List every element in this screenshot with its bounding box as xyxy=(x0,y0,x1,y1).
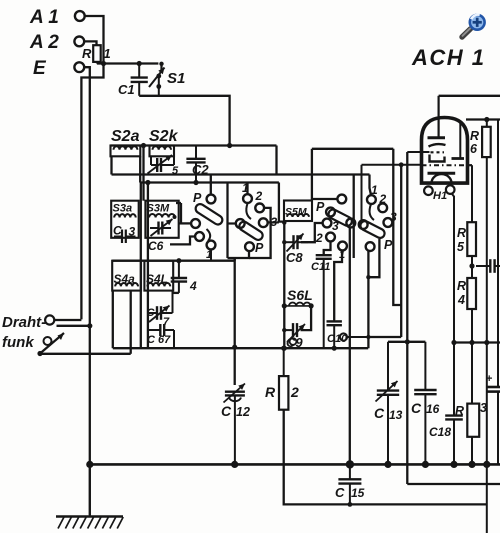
svg-text:6: 6 xyxy=(470,142,478,156)
rotary sw4 contact P xyxy=(366,242,375,251)
wire S4a box left down xyxy=(112,291,114,349)
wire heater pin down xyxy=(452,193,455,415)
rotary sw2 arc xyxy=(246,203,251,219)
svg-text:15: 15 xyxy=(351,486,365,500)
capacitor C17 right xyxy=(476,259,500,273)
capacitor C3 xyxy=(113,224,136,244)
wire B top xyxy=(312,148,393,150)
tube screen lead xyxy=(452,123,465,159)
wire S2a right down xyxy=(139,156,141,182)
label ACH 1 xyxy=(411,45,486,70)
wire S4a coil down xyxy=(130,291,132,354)
wire anode lead xyxy=(438,96,440,138)
svg-text:C: C xyxy=(335,485,345,500)
icon magnifier xyxy=(462,15,485,37)
tube cathode xyxy=(428,172,456,175)
tube pin right xyxy=(446,185,455,194)
svg-text:C9: C9 xyxy=(286,335,303,350)
svg-text:P: P xyxy=(316,200,325,214)
wire tube top right xyxy=(466,118,500,120)
junction S5M bottom xyxy=(282,220,286,224)
wire C4 bottom xyxy=(173,292,179,294)
wire x407 down xyxy=(406,152,408,484)
rotary sw1 rotor xyxy=(194,202,224,226)
resistor R4 xyxy=(467,278,476,404)
wire main ground bus xyxy=(90,463,500,466)
wire sw3-1 down xyxy=(334,250,342,320)
wire R3 leads xyxy=(471,437,473,464)
trimmer C12 xyxy=(221,384,250,465)
terminal E xyxy=(33,58,84,79)
wire cluster2 C12 down xyxy=(234,258,236,385)
trimmer C9 xyxy=(284,323,305,350)
svg-text:R: R xyxy=(470,129,479,143)
label 1 cluster4 xyxy=(371,183,378,197)
svg-text:C: C xyxy=(147,307,156,319)
junction bus right xyxy=(483,461,490,468)
tube envelope xyxy=(422,118,468,184)
junction R2 top xyxy=(281,346,286,351)
wire A2 to R1 xyxy=(84,41,96,45)
wire S6L right down xyxy=(301,306,312,330)
label R3 xyxy=(455,401,487,418)
svg-text:C1: C1 xyxy=(118,82,135,97)
svg-text:2: 2 xyxy=(290,384,299,400)
label 3 cluster2 xyxy=(271,215,278,229)
svg-text:ACH 1: ACH 1 xyxy=(411,45,486,70)
junction bus C13 xyxy=(384,461,391,468)
svg-text:C: C xyxy=(374,405,385,421)
svg-text:R: R xyxy=(265,384,276,400)
svg-text:P: P xyxy=(255,241,264,255)
junction bus R3 xyxy=(468,461,475,468)
svg-text:A 2: A 2 xyxy=(29,32,59,53)
wire y174 right corner xyxy=(353,175,355,259)
wire sw2-1 up xyxy=(246,183,248,195)
wire sw1 top up xyxy=(210,175,212,195)
terminal A1 xyxy=(29,7,85,28)
wire E down xyxy=(84,67,90,515)
junction C9 left xyxy=(282,328,286,332)
rotary sw3 contact top xyxy=(337,195,346,204)
wire bus y174 xyxy=(112,173,370,175)
svg-text:C: C xyxy=(113,224,122,238)
svg-text:C11: C11 xyxy=(311,261,330,273)
tube anode xyxy=(428,136,446,139)
wire node jog down-left xyxy=(81,64,103,320)
svg-text:13: 13 xyxy=(389,408,403,422)
junction C12 top xyxy=(232,345,237,350)
label 1 cluster1 xyxy=(206,249,212,261)
wire node to S1 xyxy=(97,62,158,64)
svg-text:3: 3 xyxy=(332,219,339,233)
resistor R3 xyxy=(467,404,479,437)
svg-text:A 1: A 1 xyxy=(29,7,59,28)
wire sw4-3 right xyxy=(392,221,393,223)
inductor S4L box xyxy=(144,261,173,291)
inductor S3a box xyxy=(111,201,139,238)
wire W3 xyxy=(454,341,500,343)
junction C10 W1 xyxy=(332,346,337,351)
svg-text:E: E xyxy=(33,58,47,79)
svg-text:P: P xyxy=(193,191,202,205)
junction y182 left xyxy=(145,180,150,185)
svg-text:2: 2 xyxy=(315,231,323,245)
junction bus C16 xyxy=(422,461,429,468)
rotary sw3 contact 3 xyxy=(323,219,339,233)
capacitor C18 xyxy=(429,416,463,464)
capacitor C15 xyxy=(335,464,365,504)
label P cluster4 xyxy=(384,238,393,252)
junction bus heater xyxy=(450,461,457,468)
junction bus C15 xyxy=(346,460,354,468)
svg-text:S4L: S4L xyxy=(146,272,168,286)
rotary sw1 contact bottom xyxy=(207,241,216,261)
rotary sw2 rotor xyxy=(238,220,265,242)
tube g3 dash-dot xyxy=(422,164,468,166)
wire S2a left down xyxy=(110,156,112,174)
wire sw2 P down xyxy=(228,251,250,258)
capacitor C11 xyxy=(311,241,332,348)
svg-text:S6L: S6L xyxy=(287,287,313,303)
junction C2 bottom xyxy=(193,180,198,185)
rotary sw4 contact 2 xyxy=(378,203,387,212)
junction bus C12 xyxy=(231,461,238,468)
inductor S5M box xyxy=(284,201,312,222)
label S2a S2k xyxy=(111,128,179,145)
junction R5 bottom xyxy=(469,263,474,268)
label R5 xyxy=(457,226,466,254)
svg-text:C 67: C 67 xyxy=(147,334,171,346)
wire B right corner xyxy=(393,149,401,305)
label S6L xyxy=(287,287,313,303)
svg-text:16: 16 xyxy=(426,402,440,416)
wire W1 horizontal xyxy=(113,347,368,349)
label 2 cluster2 xyxy=(255,189,263,203)
junction W3 heater xyxy=(451,340,456,345)
label P cluster3 xyxy=(316,200,325,214)
wire R5 top xyxy=(466,164,472,166)
svg-text:3: 3 xyxy=(480,401,487,415)
trimmer C8 xyxy=(284,234,308,266)
rotary sw1 contact mid xyxy=(195,232,204,241)
wire Drahtfunk terminal xyxy=(54,319,81,321)
wire sw4 rotor down xyxy=(368,239,379,278)
rotary sw4 contact 1 xyxy=(367,195,376,204)
capacitor C10 xyxy=(327,320,349,348)
svg-text:4: 4 xyxy=(457,293,465,307)
wire cluster2 right side xyxy=(268,183,285,223)
rotary sw1 contact left xyxy=(191,219,200,228)
junction W3 R6 xyxy=(484,340,489,345)
svg-text:Draht-: Draht- xyxy=(2,314,46,331)
resistor R2 xyxy=(279,376,288,410)
wire A1 to node xyxy=(85,16,104,64)
capacitor C1 xyxy=(118,64,148,98)
tube pin left xyxy=(424,186,433,195)
svg-text:C: C xyxy=(221,403,232,419)
svg-text:R: R xyxy=(82,46,92,61)
label R6 xyxy=(470,129,479,156)
junction S1 top xyxy=(159,62,163,66)
svg-text:S4a: S4a xyxy=(114,272,136,286)
label 3 cluster4 xyxy=(390,210,397,224)
capacitor electrolytic xyxy=(486,120,500,464)
label R1 xyxy=(82,46,111,61)
svg-text:P: P xyxy=(384,238,393,252)
capacitor C2 xyxy=(186,146,209,183)
label P cluster2 xyxy=(255,241,264,255)
tube heater arc xyxy=(432,174,452,183)
junction C4 top xyxy=(176,258,181,263)
wire C8 staircase xyxy=(301,223,323,242)
rotary sw4 contact 3 xyxy=(384,218,393,227)
wire tube lead y164 xyxy=(362,162,422,220)
junction C1 top xyxy=(137,61,142,66)
svg-text:S2k: S2k xyxy=(149,128,179,145)
wire W2 xyxy=(388,341,425,343)
trimmer C6 xyxy=(148,215,177,253)
svg-text:R: R xyxy=(457,279,466,293)
tube grid 2 xyxy=(429,144,446,146)
terminal small circle xyxy=(340,333,369,340)
svg-text:S2a: S2a xyxy=(111,128,140,145)
capacitor C16 xyxy=(411,342,440,464)
wire sw3 top xyxy=(312,198,338,200)
rotary sw4 wiper xyxy=(359,220,368,229)
wire S4 top xyxy=(234,258,236,261)
inductor S6L xyxy=(282,303,314,309)
junction grid x368 xyxy=(366,335,370,339)
wire bottom y504 xyxy=(350,503,487,505)
rotary sw2 contact 3 xyxy=(259,218,268,227)
wire sw4 P down xyxy=(367,251,369,348)
wire tube lead y152 xyxy=(407,151,429,153)
wire S2 row top xyxy=(111,144,277,146)
trimmer C13 xyxy=(374,342,403,464)
resistor R5 xyxy=(467,165,476,278)
junction W3 R4 xyxy=(469,340,474,345)
label H1 xyxy=(433,190,447,202)
label 1 cluster2 xyxy=(242,181,249,195)
svg-text:1: 1 xyxy=(206,249,212,261)
wire R2 top xyxy=(283,348,285,376)
svg-text:3: 3 xyxy=(129,225,136,239)
inductor S3M box xyxy=(145,201,178,238)
svg-text:4: 4 xyxy=(189,279,197,293)
wire R2 bottom xyxy=(284,410,350,505)
wire S4 row top xyxy=(112,260,235,262)
rotary sw4 rotor xyxy=(359,220,386,240)
wire sw3 rotor down xyxy=(349,227,351,463)
label R4 xyxy=(457,279,466,307)
switch Drahtfunk blade xyxy=(37,333,64,356)
junction S6L W1 xyxy=(282,346,287,351)
svg-text:R: R xyxy=(457,226,466,240)
junction C8 left xyxy=(282,240,286,244)
wire x143 down xyxy=(142,146,144,201)
rotary sw1 arc xyxy=(207,229,211,241)
junction S2 row xyxy=(141,143,146,148)
inductor S2a xyxy=(111,146,141,157)
svg-text:S1: S1 xyxy=(167,70,185,87)
label 2 cluster4 xyxy=(379,192,387,206)
svg-text:S5M: S5M xyxy=(285,206,307,218)
resistor R1 xyxy=(93,45,101,63)
svg-text:C18: C18 xyxy=(429,425,451,439)
svg-text:C6: C6 xyxy=(148,239,164,253)
junction x407 W2 xyxy=(405,339,410,344)
label P cluster1 xyxy=(193,191,202,205)
junction R6 top xyxy=(484,117,489,122)
rotary sw3 rotor xyxy=(326,208,355,228)
svg-text:1: 1 xyxy=(104,46,111,61)
label Drahtfunk xyxy=(2,314,46,351)
trimmer C5 xyxy=(148,155,180,177)
wire x147 down xyxy=(147,183,149,349)
junction S2 row right xyxy=(227,143,232,148)
tube grid bracket xyxy=(430,155,445,162)
wire S5M left down xyxy=(283,221,285,348)
switch S1 xyxy=(149,64,185,96)
label R2 xyxy=(265,384,299,400)
svg-text:2: 2 xyxy=(255,189,263,203)
inductor S4a box xyxy=(112,261,141,291)
contact Drahtfunk upper xyxy=(44,326,90,345)
rotary sw2 wiper xyxy=(228,219,245,228)
wire sw1 mid stub xyxy=(170,237,195,245)
svg-text:S3a: S3a xyxy=(113,203,133,215)
svg-text:funk: funk xyxy=(2,334,34,351)
rotary sw3 contact 1 xyxy=(338,242,347,261)
rotary sw3 contact 2 xyxy=(315,231,335,245)
svg-text:C: C xyxy=(411,400,422,416)
tube grid dashed xyxy=(431,151,445,153)
capacitor C4 xyxy=(171,261,197,293)
svg-text:5: 5 xyxy=(457,240,465,254)
terminal A2 xyxy=(29,32,84,53)
terminal Drahtfunk xyxy=(45,315,54,324)
wire blade to box xyxy=(40,353,131,355)
wire S2k top to y174 corner xyxy=(275,146,277,175)
wire S1 bottom bus xyxy=(139,96,229,146)
junction C15 bottom xyxy=(348,502,353,507)
rotary sw2 contact 1 xyxy=(243,194,252,203)
inductor S2k xyxy=(150,146,175,157)
wire bus y182 xyxy=(140,181,279,183)
node top junction xyxy=(101,61,106,66)
rotary sw4 arc xyxy=(370,204,374,220)
junction bus E xyxy=(86,461,93,468)
wire grid lead down xyxy=(368,165,401,337)
wire B left down xyxy=(311,149,313,201)
wire anode top xyxy=(439,95,500,97)
junction E wire xyxy=(87,323,92,328)
ground symbol xyxy=(56,464,123,528)
wire x227 down xyxy=(226,183,228,259)
wire sw4-1 up xyxy=(370,175,372,196)
svg-text:C8: C8 xyxy=(286,250,303,265)
junction sw4 P dot xyxy=(366,275,370,279)
wire x141 down xyxy=(140,183,142,349)
wire sw2-2 right xyxy=(249,208,271,258)
trimmer C7 xyxy=(147,291,173,328)
svg-text:R: R xyxy=(455,404,464,418)
rotary sw2 contact P xyxy=(245,242,254,251)
wire sw1 left stub xyxy=(176,203,191,223)
rotary sw1 contact top xyxy=(207,195,216,204)
svg-text:12: 12 xyxy=(236,405,250,419)
wire y484 xyxy=(407,483,500,485)
svg-text:+: + xyxy=(486,373,492,385)
svg-text:S3M: S3M xyxy=(147,203,170,215)
svg-text:H1: H1 xyxy=(433,190,447,202)
resistor R6 xyxy=(482,120,491,533)
capacitor C67 xyxy=(147,324,174,348)
rotary sw2 contact 2 xyxy=(255,204,264,213)
